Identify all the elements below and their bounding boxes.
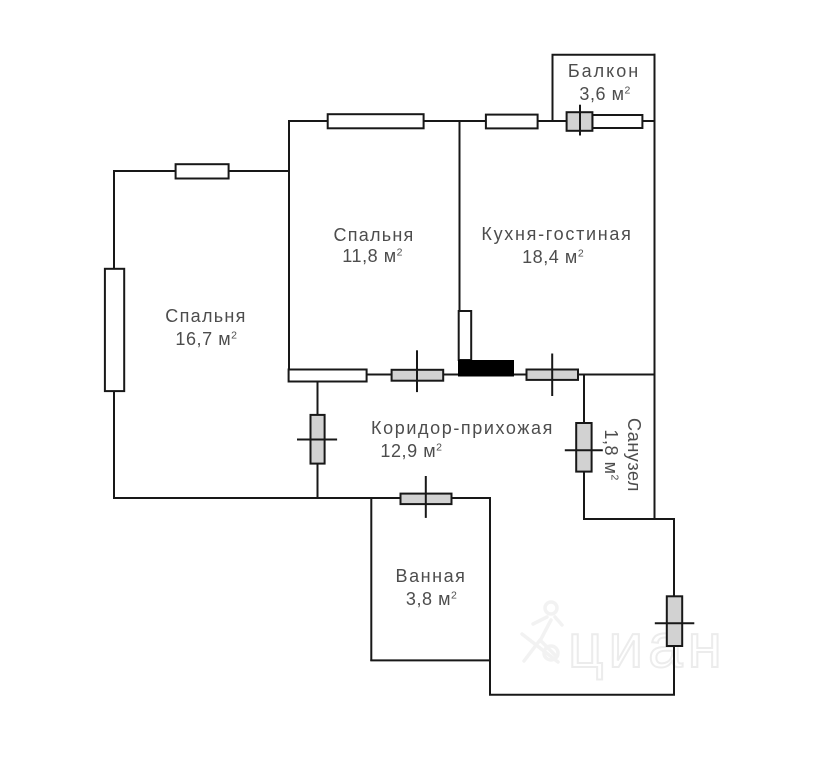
door D6 axis tick [655,622,695,624]
wall corridor-bedroom16.7 partition [317,381,319,499]
wall bathroom right [489,497,491,696]
vent niche kitchen [459,311,472,360]
door D3 axis tick [551,354,553,397]
wall partition bedroom-11.8 left [288,120,290,371]
door D1 bedroom-16.7 [311,415,325,464]
room label sanuzel (rotated) [599,418,645,492]
door D2 bedroom-11.8 [392,370,444,381]
wall bedroom-16.7 left [113,170,115,499]
watermark cian text [568,616,727,678]
room label bedroom 11.8 [333,224,414,247]
room label balcony [568,60,640,83]
window W4 kitchen top [486,115,538,129]
wall right outer [654,54,656,520]
room label bathroom [396,565,467,588]
wall sanuzel bottom + step [583,518,675,520]
room label corridor [371,417,554,440]
wall balcony left [552,54,554,122]
door D5 axis tick [425,476,427,518]
door D5 bathroom [401,494,452,505]
room label kitchen-living [481,223,632,246]
wall bottom outer [489,694,675,696]
wall bottom-left (bedroom 16.7 / bathroom top) [113,497,491,499]
door D2 axis tick [416,350,418,392]
wall sanuzel left [583,374,585,520]
window W2 bedroom-16.7 left [105,269,124,391]
room label bedroom 16.7 [165,305,246,328]
wall bedroom-16.7 top [113,170,290,172]
window W1 bedroom-16.7 top [176,164,229,178]
window W5 balcony window [592,115,642,128]
door D4 axis tick [565,449,603,451]
window W3 bedroom-11.8 top [328,114,424,128]
door D7 axis tick [579,105,581,136]
door D4 sanuzel [576,423,591,472]
wall balcony top [552,54,656,56]
opening O1 corridor-bedroom11.8 [289,370,367,382]
door D1 axis tick [297,439,337,441]
wall hall right outer [673,518,675,696]
wall top (bedroom 11.8 + kitchen) [288,120,656,122]
wall kitchen left partition [459,120,461,312]
wall bathroom bottom [370,659,491,661]
door D7 balcony door [567,112,593,131]
door D3 kitchen [527,370,579,380]
shaft black block [458,360,514,377]
wall corridor top [366,374,656,376]
door D6 entrance [667,596,682,646]
wall bathroom left [370,497,372,661]
